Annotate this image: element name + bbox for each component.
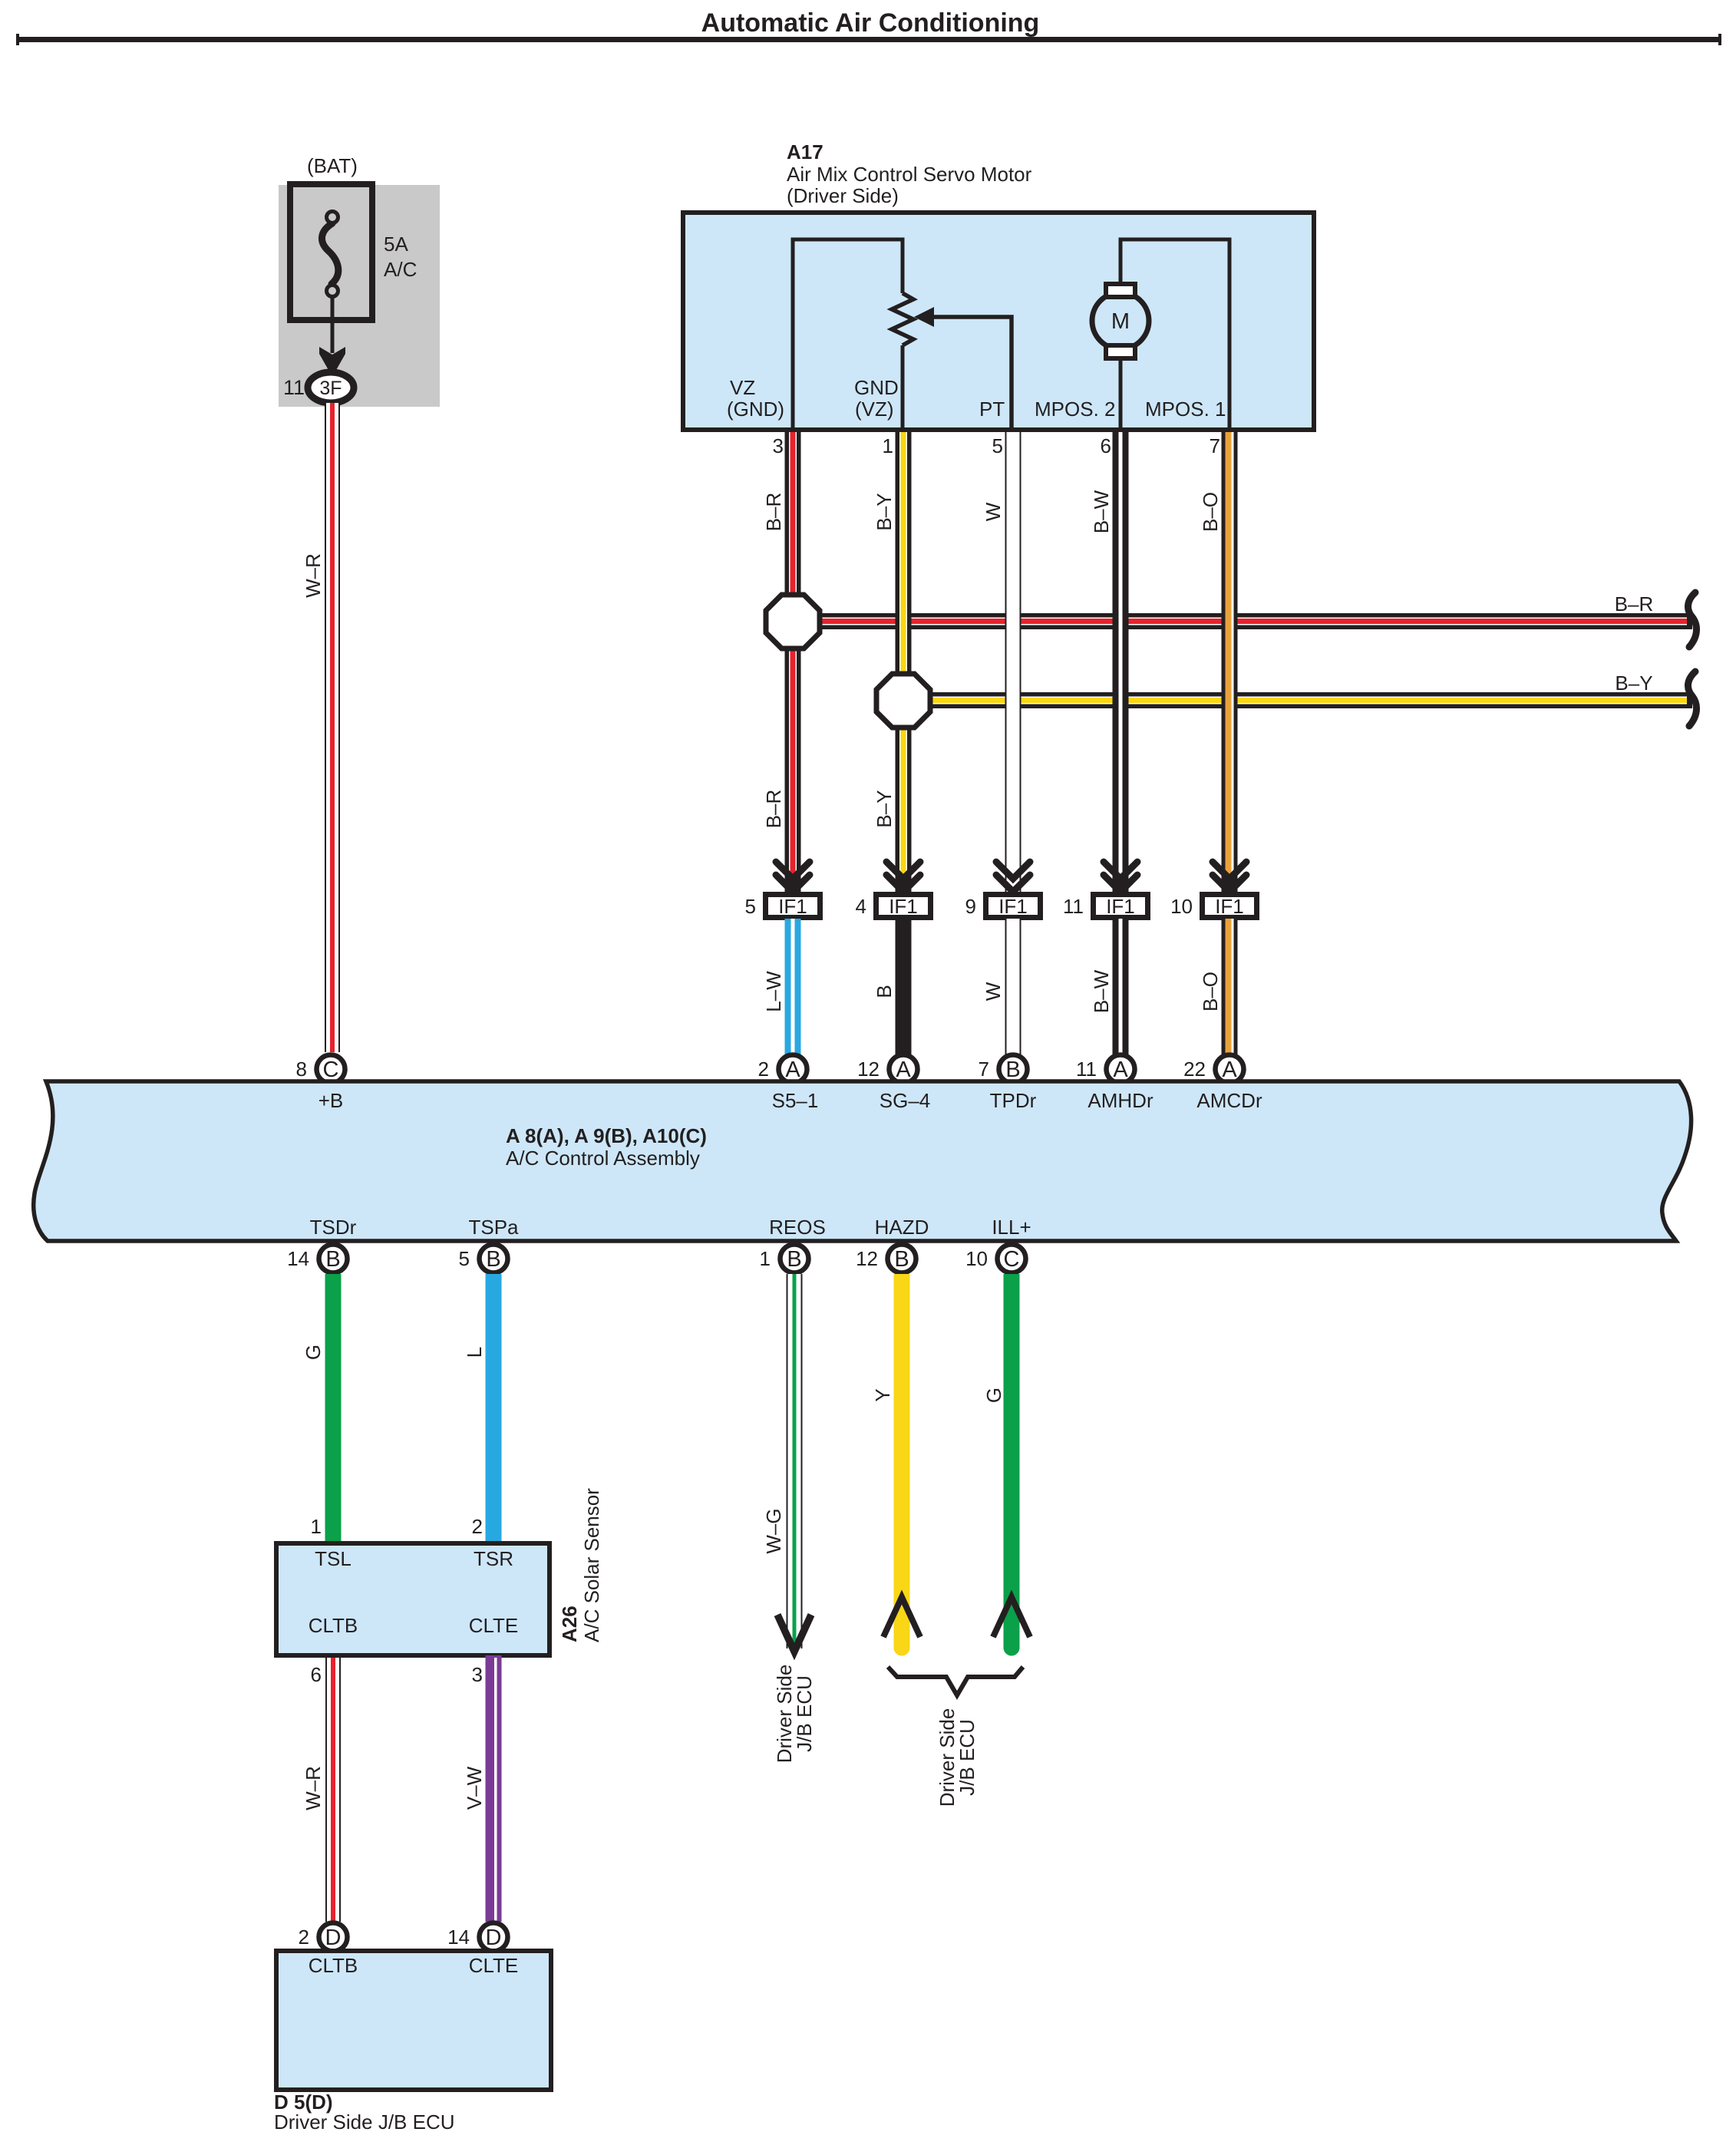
svg-text:MPOS. 2: MPOS. 2 <box>1035 398 1115 421</box>
svg-text:W–R: W–R <box>302 1766 325 1810</box>
wire B-Y pin1 down <box>896 427 912 893</box>
svg-text:1: 1 <box>883 434 893 457</box>
pin circle 12 B (HAZD) <box>888 1245 916 1273</box>
svg-text:D: D <box>486 1926 502 1950</box>
wire motor bottom to pin6 <box>1119 358 1123 427</box>
svg-text:CLTE: CLTE <box>469 1614 519 1637</box>
svg-text:+B: +B <box>318 1089 344 1112</box>
wire B IF1 to SG-4 <box>896 919 912 1054</box>
svg-text:TSL: TSL <box>315 1547 351 1570</box>
arrow up on G wire <box>993 1597 1030 1637</box>
svg-text:IF1: IF1 <box>998 895 1028 918</box>
svg-text:6: 6 <box>1101 434 1111 457</box>
svg-text:3: 3 <box>472 1663 483 1686</box>
potentiometer zigzag <box>892 293 913 345</box>
svg-text:10: 10 <box>1170 895 1193 918</box>
svg-text:B: B <box>894 1247 909 1272</box>
pin circle 10 C (ILL+) <box>998 1245 1026 1273</box>
svg-text:1: 1 <box>311 1515 322 1538</box>
fuse terminal bottom <box>327 285 338 297</box>
svg-text:C: C <box>323 1058 339 1082</box>
svg-text:REOS: REOS <box>769 1216 826 1239</box>
svg-text:A17: A17 <box>787 140 823 163</box>
svg-text:B–R: B–R <box>762 493 785 532</box>
pin circle 14 D (CLTE) <box>480 1923 508 1952</box>
pin circle 5 B (TSPa) <box>480 1245 508 1273</box>
svg-text:(BAT): (BAT) <box>307 154 358 177</box>
svg-text:J/B ECU: J/B ECU <box>955 1719 979 1796</box>
svg-text:B–R: B–R <box>762 790 785 829</box>
svg-text:10: 10 <box>965 1247 988 1270</box>
svg-text:AMHDr: AMHDr <box>1087 1089 1153 1112</box>
svg-text:CLTB: CLTB <box>309 1954 358 1977</box>
svg-text:M: M <box>1111 309 1130 334</box>
svg-text:(VZ): (VZ) <box>855 398 894 421</box>
svg-text:B: B <box>787 1247 801 1272</box>
svg-text:B–Y: B–Y <box>873 493 896 530</box>
svg-text:B: B <box>486 1247 500 1272</box>
svg-text:G: G <box>982 1388 1005 1403</box>
svg-text:Automatic Air Conditioning: Automatic Air Conditioning <box>701 8 1040 38</box>
chevron arrows into IF1 connectors <box>776 862 1246 892</box>
svg-text:Y: Y <box>871 1388 894 1401</box>
title rule <box>16 37 1721 42</box>
svg-text:14: 14 <box>287 1247 309 1270</box>
IF1 connector 5 <box>766 895 820 918</box>
svg-text:HAZD: HAZD <box>875 1216 929 1239</box>
svg-text:A: A <box>896 1058 911 1082</box>
pin circle 22 A (AMCDr) <box>1216 1055 1244 1084</box>
horizontal wire B-R to right edge <box>793 613 1692 629</box>
wire B-O IF1 to AMCDr <box>1222 919 1238 1054</box>
svg-text:IF1: IF1 <box>778 895 807 918</box>
svg-text:5A: 5A <box>384 233 408 256</box>
svg-text:12: 12 <box>856 1247 878 1270</box>
svg-text:CLTB: CLTB <box>309 1614 358 1637</box>
pin circle 11 A (AMHDr) <box>1107 1055 1135 1084</box>
svg-text:7: 7 <box>979 1058 989 1081</box>
wire B-W pin6 down <box>1113 427 1129 893</box>
svg-text:W: W <box>982 502 1005 521</box>
pin circle 14 B (TSDr) <box>319 1245 348 1273</box>
IF1 connector 11 <box>1094 895 1148 918</box>
svg-text:S5–1: S5–1 <box>772 1089 819 1112</box>
fuse 5A A/C box outline <box>290 184 372 320</box>
pin circle 2 D (CLTB) <box>319 1923 348 1952</box>
wire W pin5 down <box>1005 427 1021 893</box>
svg-text:PT: PT <box>979 398 1005 421</box>
svg-text:D: D <box>325 1926 342 1950</box>
junction octagon B-Y <box>876 674 930 728</box>
svg-text:MPOS. 1: MPOS. 1 <box>1145 398 1226 421</box>
svg-text:2: 2 <box>758 1058 769 1081</box>
svg-text:B–R: B–R <box>1615 592 1654 615</box>
svg-text:C: C <box>1004 1247 1020 1272</box>
arrow up on Y wire <box>883 1597 920 1637</box>
svg-text:A/C: A/C <box>384 258 417 281</box>
svg-text:2: 2 <box>472 1515 483 1538</box>
svg-text:9: 9 <box>965 895 976 918</box>
svg-text:A: A <box>1222 1058 1237 1082</box>
wire Y HAZD down <box>894 1274 910 1648</box>
svg-text:(Driver Side): (Driver Side) <box>787 184 899 207</box>
break symbol B-Y <box>1688 672 1696 726</box>
wire B-R pin3 down <box>785 427 801 893</box>
IF1 connector 10 <box>1203 895 1257 918</box>
svg-text:5: 5 <box>745 895 756 918</box>
svg-text:5: 5 <box>992 434 1003 457</box>
svg-text:B–W: B–W <box>1090 490 1113 533</box>
svg-text:V–W: V–W <box>463 1766 486 1810</box>
svg-text:3: 3 <box>773 434 784 457</box>
D5 Driver Side J/B ECU box <box>276 1951 551 2090</box>
svg-text:IF1: IF1 <box>1106 895 1135 918</box>
svg-text:A: A <box>1113 1058 1128 1082</box>
A17 Air Mix Control Servo Motor box <box>683 213 1314 430</box>
wire W IF1 to TPDr <box>1005 919 1021 1054</box>
wire W-R fuse to +B <box>325 403 340 1052</box>
svg-text:TSDr: TSDr <box>310 1216 357 1239</box>
svg-text:Driver Side J/B ECU: Driver Side J/B ECU <box>274 2110 455 2134</box>
svg-text:A: A <box>785 1058 800 1082</box>
svg-text:ILL+: ILL+ <box>992 1216 1031 1239</box>
wiper arrowhead <box>914 307 934 327</box>
fuse panel gray box <box>279 185 440 407</box>
motor M <box>1092 292 1149 349</box>
svg-text:6: 6 <box>311 1663 322 1686</box>
A26 A/C Solar Sensor box <box>276 1543 550 1655</box>
pin circle 8 C (+B) <box>317 1055 345 1084</box>
arrow W-G to Driver Side J/B ECU <box>777 1615 811 1652</box>
connector oval 3F <box>308 372 354 403</box>
svg-text:B–Y: B–Y <box>1615 672 1652 695</box>
svg-text:VZ: VZ <box>730 376 755 399</box>
bracket under HAZD/ILL+ <box>888 1667 1023 1695</box>
svg-text:TSR: TSR <box>474 1547 513 1570</box>
svg-text:1: 1 <box>760 1247 771 1270</box>
svg-text:G: G <box>302 1345 325 1360</box>
horizontal wire B-Y to right edge <box>903 692 1692 708</box>
svg-text:B–Y: B–Y <box>873 790 896 827</box>
pin circle 7 B (TPDr) <box>999 1055 1028 1084</box>
wire potentiometer to pin1 <box>901 345 905 427</box>
wire pin3 loop to potentiometer <box>793 239 903 427</box>
wire V-W CLTE down <box>486 1655 502 1922</box>
wiper wire from pin5 <box>930 317 1012 427</box>
svg-text:GND: GND <box>854 376 899 399</box>
svg-text:2: 2 <box>299 1926 309 1949</box>
wire G TSDr to solar sensor <box>325 1274 342 1541</box>
svg-text:4: 4 <box>856 895 866 918</box>
pin circle 12 A (SG-4) <box>889 1055 918 1084</box>
svg-text:12: 12 <box>857 1058 880 1081</box>
svg-text:TSPa: TSPa <box>468 1216 519 1239</box>
svg-text:W–R: W–R <box>302 553 325 598</box>
fuse element squiggle <box>322 223 338 284</box>
svg-text:22: 22 <box>1183 1058 1206 1081</box>
svg-text:AMCDr: AMCDr <box>1196 1089 1262 1112</box>
pin circle 2 A (S5-1) <box>779 1055 807 1084</box>
svg-text:CLTE: CLTE <box>469 1954 519 1977</box>
IF1 connector 9 <box>986 895 1041 918</box>
svg-text:B–W: B–W <box>1090 969 1113 1013</box>
svg-text:8: 8 <box>296 1058 307 1081</box>
svg-text:11: 11 <box>283 376 305 399</box>
svg-text:W–G: W–G <box>762 1508 785 1553</box>
svg-text:TPDr: TPDr <box>990 1089 1037 1112</box>
wire W-G REOS down <box>787 1274 803 1648</box>
svg-text:5: 5 <box>459 1247 470 1270</box>
fuse terminal top <box>327 212 338 223</box>
svg-text:B: B <box>1005 1058 1020 1082</box>
wire G ILL+ down <box>1004 1274 1020 1648</box>
wire L-W IF1 to S5-1 <box>785 919 801 1054</box>
wire B-W IF1 to AMHDr <box>1113 919 1129 1054</box>
svg-text:W: W <box>982 982 1005 1001</box>
wire B-O pin7 down <box>1222 427 1238 893</box>
svg-text:J/B ECU: J/B ECU <box>793 1675 816 1752</box>
svg-text:IF1: IF1 <box>1215 895 1244 918</box>
svg-text:A/C Control Assembly: A/C Control Assembly <box>506 1147 700 1170</box>
svg-text:B–O: B–O <box>1199 972 1222 1011</box>
wire L TSPa to solar sensor <box>486 1274 502 1541</box>
svg-text:7: 7 <box>1210 434 1220 457</box>
junction octagon B-R <box>766 595 820 648</box>
wire W-R CLTB down <box>325 1655 341 1922</box>
svg-text:11: 11 <box>1076 1058 1097 1081</box>
svg-text:14: 14 <box>447 1926 470 1949</box>
wire fuse to connector 3F <box>331 297 335 353</box>
svg-text:Air Mix Control Servo Motor: Air Mix Control Servo Motor <box>787 163 1032 186</box>
pin circle 1 B (REOS) <box>781 1245 809 1273</box>
svg-text:SG–4: SG–4 <box>880 1089 931 1112</box>
svg-text:B: B <box>873 985 896 998</box>
IF1 connector 4 <box>876 895 931 918</box>
A/C Control Assembly bar <box>34 1081 1691 1241</box>
svg-text:B: B <box>325 1247 340 1272</box>
svg-text:B–O: B–O <box>1199 492 1222 532</box>
svg-text:3F: 3F <box>319 378 342 399</box>
svg-text:A 8(A), A 9(B), A10(C): A 8(A), A 9(B), A10(C) <box>506 1124 707 1147</box>
wire motor top loop to pin7 <box>1120 239 1229 427</box>
svg-text:A/C Solar Sensor: A/C Solar Sensor <box>580 1488 603 1642</box>
arrowhead into 3F <box>319 347 345 377</box>
svg-text:L–W: L–W <box>762 971 785 1012</box>
svg-text:IF1: IF1 <box>889 895 918 918</box>
svg-text:L: L <box>463 1347 486 1358</box>
svg-text:11: 11 <box>1063 895 1084 918</box>
break symbol B-R <box>1688 592 1696 647</box>
svg-text:A26: A26 <box>558 1606 581 1642</box>
svg-text:(GND): (GND) <box>727 398 784 421</box>
